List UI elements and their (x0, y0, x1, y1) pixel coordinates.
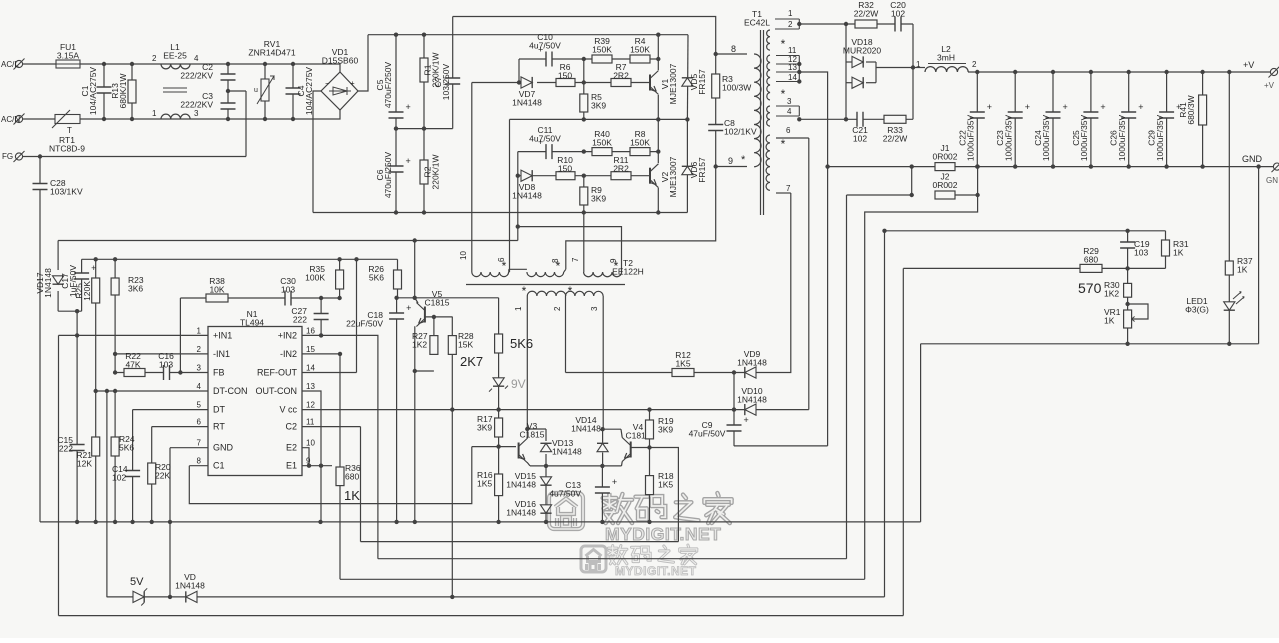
resistor R19 (646, 420, 654, 439)
svg-text:*: * (614, 259, 619, 273)
svg-text:100K: 100K (305, 273, 325, 283)
wire C7 column (452, 17, 454, 129)
resistor R16 (495, 474, 503, 496)
wire C2/C3 midpoint (228, 90, 246, 92)
wire to L2 (913, 67, 925, 69)
svg-text:+: + (1063, 102, 1068, 112)
junction (307, 464, 311, 468)
wire R18 column (649, 448, 651, 522)
wire T1 pin3/4 C21 R33 row (799, 118, 913, 120)
resistor R24 (111, 437, 119, 456)
svg-text:+V: +V (1243, 60, 1254, 70)
capacitor C3 (220, 103, 237, 109)
resistor J1 (935, 163, 955, 171)
diode VD (186, 591, 197, 602)
svg-text:12K: 12K (77, 459, 92, 469)
junction (337, 257, 341, 261)
T1 pins 1 2 bracket (775, 19, 799, 29)
junction (263, 117, 267, 121)
junction (1051, 70, 1055, 74)
wire current sense return (865, 167, 978, 580)
svg-text:14: 14 (788, 73, 797, 82)
resistor R1 (420, 58, 428, 82)
svg-text:470uF/250V: 470uF/250V (383, 62, 393, 109)
wire T2 pin1 column (526, 302, 528, 429)
junction (450, 407, 454, 411)
capacitor C1 (96, 87, 113, 93)
wire R37 LED column (1228, 72, 1230, 344)
svg-text:*: * (741, 154, 746, 166)
svg-text:*: * (556, 259, 561, 273)
wire T2 pin6 stub (508, 269, 510, 272)
T1 pins 11-14 bracket (776, 56, 799, 82)
wire T2 pin2 stub (565, 296, 567, 302)
wire VD15 VD16 column (545, 466, 547, 522)
capacitor C10 (546, 51, 552, 68)
svg-text:T: T (67, 126, 72, 135)
wire C2 drive line (361, 541, 679, 543)
resistor R30 (1124, 283, 1132, 297)
junction (496, 444, 500, 448)
junction (337, 296, 341, 300)
wire pin7 ground column (169, 448, 171, 598)
capacitor C8 (707, 125, 724, 131)
diode VD8 (521, 170, 532, 181)
wire VR1 wiper loop (1128, 304, 1148, 319)
svg-text:1K5: 1K5 (675, 359, 690, 369)
svg-text:C1815: C1815 (424, 298, 449, 308)
svg-text:+: + (744, 415, 749, 425)
junction (102, 62, 106, 66)
junction (797, 79, 801, 83)
junction (1013, 70, 1017, 74)
wire T1 pin13 column (799, 72, 828, 446)
svg-text:V cc: V cc (279, 405, 297, 415)
wire T2 pin2 column (565, 302, 567, 373)
junction (226, 62, 230, 66)
resistor R12 (672, 369, 694, 377)
wire R1 R2 column (423, 35, 425, 213)
svg-text:470uF/250V: 470uF/250V (383, 152, 393, 199)
junction (354, 257, 358, 261)
svg-text:C2: C2 (285, 422, 297, 432)
svg-text:6: 6 (197, 418, 202, 427)
junction (656, 57, 660, 61)
svg-text:11: 11 (788, 46, 797, 55)
wire T1 pin8 (716, 53, 747, 55)
wire 5K6/9V/R17 column (498, 298, 500, 447)
svg-text:MJE13007: MJE13007 (668, 156, 678, 197)
wire C19 line column (884, 231, 886, 597)
junction (75, 309, 79, 313)
svg-text:DT: DT (213, 405, 225, 415)
wire R28 column (451, 317, 453, 410)
svg-text:3K9: 3K9 (591, 101, 606, 111)
resistor J2 (935, 191, 955, 199)
svg-text:104/AC275V: 104/AC275V (88, 67, 98, 116)
wire C2/C3 mid to FG (245, 91, 247, 157)
junction (94, 520, 98, 524)
wire T2 pin3 stub (602, 296, 604, 302)
resistor R11 (611, 172, 631, 180)
junction (394, 33, 398, 37)
junction (130, 520, 134, 524)
svg-text:3: 3 (590, 306, 599, 311)
wire C7 top to T1 pin8 node (453, 17, 716, 55)
resistor R8 (630, 148, 650, 156)
svg-text:*: * (568, 284, 573, 298)
diode VD18 top (852, 56, 863, 67)
wire J2 row right (955, 194, 978, 196)
svg-text:150K: 150K (592, 138, 612, 148)
junction (647, 407, 651, 411)
junction (113, 520, 117, 524)
svg-text:+: + (1025, 102, 1030, 112)
wire V2 emitter (657, 188, 659, 213)
resistor R4 (630, 55, 650, 63)
svg-text:EE-25: EE-25 (163, 51, 187, 61)
svg-text:MUR2020: MUR2020 (843, 46, 882, 56)
wire R29 line column (902, 268, 904, 615)
svg-text:103: 103 (159, 360, 173, 370)
svg-text:EC42L: EC42L (744, 18, 770, 28)
junction (844, 22, 848, 26)
svg-text:1K5: 1K5 (658, 480, 673, 490)
svg-text:REF-OUT: REF-OUT (257, 368, 297, 378)
svg-text:−: − (325, 79, 330, 88)
wire mid rail C5/C6 (396, 128, 453, 130)
junction (168, 520, 172, 524)
transformer T2 winding 10-6 (472, 272, 509, 277)
wire bridge plus to top bus (358, 35, 368, 91)
wire R39 R4 row (584, 58, 659, 60)
wire pin7 GND line (170, 447, 208, 449)
wire bottom sense line (59, 615, 904, 617)
junction (94, 257, 98, 261)
junction (647, 445, 651, 449)
svg-text:2R2: 2R2 (613, 164, 629, 174)
junction (450, 595, 454, 599)
varistor RV1 (261, 79, 269, 101)
wire +V rail (968, 71, 1274, 73)
wire V4 collector stub (621, 429, 622, 437)
junction (525, 427, 529, 431)
junction (150, 520, 154, 524)
svg-text:222: 222 (293, 315, 307, 325)
junction (656, 149, 660, 153)
wire R32 C20 row (846, 23, 913, 25)
resistor R39 (592, 55, 612, 63)
capacitor C7 (444, 78, 461, 84)
junction (516, 224, 520, 228)
svg-text:FG: FG (2, 152, 13, 161)
wire VD18 anode column (845, 24, 847, 119)
svg-text:Φ3(G): Φ3(G) (1185, 305, 1209, 315)
wire REF column (356, 259, 358, 372)
wire VD6 column (686, 119, 688, 212)
capacitor C5 (388, 112, 405, 118)
wire J2 left link (911, 167, 913, 195)
junction (844, 117, 848, 121)
svg-text:680/3W: 680/3W (1186, 95, 1196, 124)
svg-text:MJE13007: MJE13007 (668, 63, 678, 104)
wire AC/N to RT1 (23, 118, 55, 120)
transistor V5 C1815 (424, 307, 426, 323)
junction (38, 154, 42, 158)
svg-text:1N4148: 1N4148 (506, 480, 536, 490)
wire R23 column (114, 259, 116, 372)
junction (910, 193, 914, 197)
svg-text:5: 5 (197, 401, 202, 410)
wire T1 pin9 (716, 166, 747, 168)
wire T2 pin7 column (583, 213, 585, 273)
svg-text:+V: +V (1264, 81, 1275, 90)
wire C27 column (320, 298, 322, 335)
junction (394, 210, 398, 214)
wire R9 column (583, 176, 585, 213)
svg-text:3K9: 3K9 (591, 194, 606, 204)
capacitor C30 (285, 290, 291, 307)
junction (496, 520, 500, 524)
svg-text:1000uF/35V: 1000uF/35V (1155, 115, 1165, 162)
svg-text:1N4148: 1N4148 (175, 581, 205, 591)
wire V4 base line (631, 447, 649, 449)
wire R19 column (649, 410, 651, 448)
transformer T2 winding 7-9 (584, 272, 622, 277)
svg-text:+: + (350, 79, 355, 88)
svg-text:4u7/50V: 4u7/50V (549, 489, 581, 499)
junction (75, 520, 79, 524)
IC N1 TL494 (208, 327, 302, 476)
capacitor C11 (546, 143, 552, 160)
svg-text:+: + (406, 156, 411, 166)
resistor R29 (1080, 264, 1102, 272)
svg-text:102/1KV: 102/1KV (724, 127, 757, 137)
svg-text:150K: 150K (630, 138, 650, 148)
svg-text:3: 3 (197, 364, 202, 373)
svg-text:9V: 9V (511, 377, 526, 391)
svg-text:3mH: 3mH (937, 53, 955, 63)
capacitor C9 (726, 425, 743, 431)
wire reference rail (82, 258, 398, 260)
watermark text small (611, 546, 614, 555)
junction (975, 193, 979, 197)
svg-text:3: 3 (194, 109, 199, 118)
svg-text:7: 7 (197, 439, 202, 448)
junction (656, 117, 660, 121)
junction (910, 164, 914, 168)
svg-text:4u7/50V: 4u7/50V (529, 134, 561, 144)
wire T2 pin10 column (471, 83, 473, 273)
wire bridge minus to bottom bus (313, 91, 321, 213)
svg-text:13: 13 (306, 382, 315, 391)
wire T2 pin3 column (602, 302, 604, 429)
wire pin13 OUT-CON to ground (302, 391, 321, 522)
svg-text:47K: 47K (125, 360, 140, 370)
junction (413, 369, 417, 373)
svg-text:+: + (91, 263, 96, 273)
wire R36 sense column (339, 354, 341, 579)
resistor R10 (556, 172, 575, 180)
junction (797, 22, 801, 26)
wire AC/N to bridge bottom (80, 110, 340, 119)
wire VD17 bottom leg (57, 291, 59, 311)
wire pin1 +IN1 line (59, 334, 209, 336)
junction (168, 595, 172, 599)
svg-text:1N4148: 1N4148 (737, 358, 767, 368)
svg-text:C1: C1 (213, 461, 225, 471)
junction (413, 520, 417, 524)
svg-text:22K: 22K (155, 471, 170, 481)
svg-text:1: 1 (916, 60, 921, 69)
wire VD17 top leg (57, 241, 59, 271)
wire pin16 +IN2 line (302, 335, 378, 558)
wire R3 C8 snubber column (715, 54, 717, 167)
svg-text:1N4148: 1N4148 (552, 447, 582, 457)
svg-text:222/2KV: 222/2KV (180, 71, 213, 81)
svg-text:3K9: 3K9 (658, 425, 673, 435)
wire C10 left leg (518, 59, 520, 83)
wire C9 bottom to pin13 column (734, 445, 828, 447)
svg-text:150: 150 (558, 71, 572, 81)
wire VD18 out (876, 67, 913, 69)
wire R26 column (397, 259, 399, 298)
diode VD17 (53, 276, 64, 284)
junction (1127, 164, 1131, 168)
junction (102, 117, 106, 121)
junction (1200, 70, 1204, 74)
junction (263, 62, 267, 66)
junction (113, 352, 117, 356)
svg-text:680: 680 (1084, 255, 1098, 265)
terminal +V (1270, 68, 1277, 75)
svg-text:100/3W: 100/3W (722, 83, 751, 93)
svg-text:150: 150 (558, 164, 572, 174)
diode VD18 bottom (852, 77, 863, 88)
svg-text:*: * (781, 37, 786, 51)
transformer T1 core (761, 30, 764, 215)
wire (508, 271, 511, 273)
svg-text:1: 1 (152, 109, 157, 118)
wire R27 bottom tie (415, 370, 434, 372)
wire sense ground column (920, 344, 922, 522)
svg-text:8: 8 (197, 457, 202, 466)
svg-text:10: 10 (459, 251, 468, 260)
junction (714, 52, 718, 56)
resistor R40 (592, 148, 612, 156)
junction (338, 352, 342, 356)
junction (318, 520, 322, 524)
thermistor RT1 (55, 115, 80, 124)
svg-text:9: 9 (728, 156, 733, 166)
capacitor C13 (594, 487, 611, 493)
wire C2 C3 column (227, 64, 229, 119)
svg-text:1: 1 (514, 306, 523, 311)
svg-text:D15SB60: D15SB60 (322, 56, 359, 66)
wire T2 winding link (509, 268, 527, 270)
svg-text:OUT-CON: OUT-CON (256, 386, 298, 396)
svg-text:+IN2: +IN2 (278, 330, 297, 340)
wire R24 column (114, 391, 116, 522)
svg-text:3.15A: 3.15A (57, 51, 80, 61)
svg-text:+: + (1138, 102, 1143, 112)
wire R16 column (498, 447, 500, 522)
svg-text:5K6: 5K6 (119, 443, 134, 453)
inductor L2 (925, 67, 968, 72)
wire T2 pin6 column (509, 119, 511, 272)
svg-text:2: 2 (152, 54, 157, 63)
transistor V1 MJE13007 (649, 75, 651, 91)
capacitor C17 (73, 273, 90, 279)
wire R41 column (1202, 72, 1204, 167)
svg-text:102: 102 (853, 134, 867, 144)
junction (1125, 229, 1129, 233)
wire T1 pin6 column (808, 138, 810, 410)
wire V4 emitter stub (621, 462, 624, 466)
svg-text:1K2: 1K2 (1104, 289, 1119, 299)
svg-text:5K6: 5K6 (510, 336, 533, 351)
wire T2 pin8 to T1 pin9 node (566, 167, 716, 270)
inductor L1 top winding (161, 64, 190, 69)
svg-text:3K9: 3K9 (477, 423, 492, 433)
svg-text:2R2: 2R2 (613, 71, 629, 81)
junction (422, 126, 426, 130)
junction (113, 257, 117, 261)
wire pin10 E2 hook (302, 448, 309, 466)
resistor R31 (1162, 240, 1170, 256)
wire +IN1 sense column (58, 335, 60, 615)
svg-text:1: 1 (788, 9, 793, 18)
wire V4 collector link (603, 428, 621, 430)
capacitor C16 (164, 364, 170, 381)
wire FG/C28 down to ground bus (39, 157, 41, 522)
junction (496, 407, 500, 411)
svg-text:8: 8 (731, 44, 736, 54)
wire VD8 R10 R11 row to V2 base (518, 175, 650, 177)
junction (1125, 342, 1129, 346)
wire T2 pin8 stub (564, 269, 566, 272)
wire T1 pin1/2 out (800, 23, 846, 25)
wire T1 pin6 stub (776, 137, 809, 139)
svg-text:14: 14 (306, 364, 315, 373)
wire V4 drive link (650, 448, 679, 542)
diode VD6 (682, 166, 693, 174)
wire VD18 bottom anode stub (846, 82, 852, 84)
inductor L1 bottom winding (161, 114, 190, 119)
resistor R28 (448, 336, 456, 355)
wire T2 pin2 to R12 (566, 372, 673, 374)
svg-text:*: * (781, 137, 786, 151)
junction (582, 117, 586, 121)
diode VD7 (521, 77, 532, 88)
svg-text:2: 2 (788, 20, 793, 29)
svg-text:1K: 1K (344, 488, 360, 503)
capacitor C29 (1158, 112, 1175, 118)
transformer T1 aux winding 6-7 (766, 135, 770, 190)
svg-text:*: * (781, 87, 786, 101)
wire VD17/C17 node to C15 to ground (76, 311, 78, 522)
junction (1256, 164, 1260, 168)
wire GND rail (828, 166, 1277, 168)
wire C11 row (518, 151, 584, 153)
svg-text:E2: E2 (286, 443, 297, 453)
junction (226, 89, 230, 93)
svg-text:103/1KV: 103/1KV (50, 187, 83, 197)
diode VD14 (597, 443, 608, 451)
capacitor C14 (124, 471, 141, 477)
LED LED1 (1224, 302, 1235, 310)
svg-text:FR157: FR157 (697, 69, 707, 95)
